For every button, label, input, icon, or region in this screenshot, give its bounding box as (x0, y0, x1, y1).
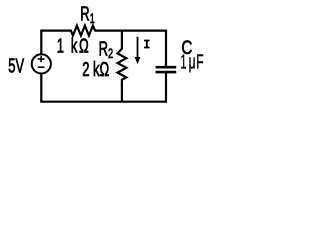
svg-text:5V: 5V (8, 55, 24, 78)
svg-text:2 kΩ: 2 kΩ (82, 58, 109, 81)
svg-text:1: 1 (180, 51, 186, 73)
svg-text:1 kΩ: 1 kΩ (57, 35, 91, 58)
svg-text:μF: μF (189, 51, 205, 73)
svg-text:I: I (143, 38, 150, 52)
